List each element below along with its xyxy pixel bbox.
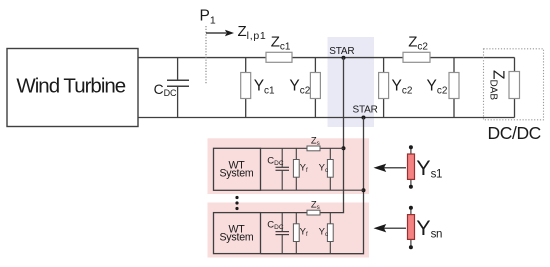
node bottom wire junction region1 xyxy=(362,188,366,192)
pink subsystem region 1 xyxy=(208,138,370,194)
STAR highlight band xyxy=(328,37,375,127)
svg-text:STAR: STAR xyxy=(329,46,354,57)
svg-text:Ysn: Ysn xyxy=(416,216,442,241)
WT System block 1 xyxy=(214,148,261,190)
admittance Yc2 (second pi right) xyxy=(449,58,459,118)
svg-text:Yc1: Yc1 xyxy=(254,78,275,97)
svg-text:Zc1: Zc1 xyxy=(271,33,291,52)
svg-text:Yc2: Yc2 xyxy=(392,78,413,97)
svg-text:System: System xyxy=(219,232,253,244)
wire STAR line 2 xyxy=(261,118,364,254)
node STAR bottom junction xyxy=(362,116,366,120)
svg-text:Zc2: Zc2 xyxy=(408,33,428,52)
admittance Yc2 (second pi left) xyxy=(379,58,389,118)
pink subsystem region 2 xyxy=(208,203,370,258)
svg-text:Zs: Zs xyxy=(311,200,320,212)
svg-text:Zl,p1: Zl,p1 xyxy=(238,23,267,42)
svg-text:Yc2: Yc2 xyxy=(289,78,310,97)
admittance Yc2 (first pi) xyxy=(310,58,320,118)
svg-text:ZDAB: ZDAB xyxy=(487,70,506,100)
admittance Ys1 xyxy=(408,145,415,189)
svg-text:Wind Turbine: Wind Turbine xyxy=(16,74,125,97)
svg-text:STAR: STAR xyxy=(353,105,378,116)
DC/DC converter dashed box xyxy=(484,49,544,120)
wire top rail xyxy=(138,57,515,59)
svg-text:DC/DC: DC/DC xyxy=(488,123,541,143)
WT System block 2 xyxy=(214,213,261,254)
wire region1 top xyxy=(261,147,344,149)
admittance Ysn xyxy=(408,206,415,250)
ellipsis dots between subsystems xyxy=(235,196,238,210)
impedance Zs region2 xyxy=(307,210,320,215)
svg-text:Yc2: Yc2 xyxy=(427,78,448,97)
wire STAR line 1 xyxy=(320,58,344,213)
admittance Yc region2 xyxy=(327,213,333,254)
impedance Zc2 xyxy=(403,52,430,62)
wire bottom rail xyxy=(138,117,515,119)
admittance Yf region1 xyxy=(293,148,299,190)
capacitor CDC region1 xyxy=(276,148,290,190)
impedance ZDAB xyxy=(509,58,520,118)
svg-text:Ys1: Ys1 xyxy=(416,156,442,181)
arrow Zl,p1 xyxy=(206,30,234,36)
arrow to region2 xyxy=(374,224,407,232)
capacitor CDC region2 xyxy=(276,213,290,254)
wire region2 top xyxy=(261,212,307,214)
svg-text:P1: P1 xyxy=(200,7,216,26)
node Zs junction region1 xyxy=(342,146,346,150)
Wind Turbine block xyxy=(7,49,138,127)
admittance Yc region1 xyxy=(327,148,333,190)
capacitor CDC xyxy=(167,58,189,118)
impedance Zc1 xyxy=(266,52,292,62)
node STAR top junction xyxy=(342,56,346,60)
admittance Yc1 xyxy=(241,58,251,118)
svg-text:CDC: CDC xyxy=(154,82,177,98)
node P1 dashed measurement line xyxy=(205,26,207,84)
wire region1 bottom xyxy=(261,189,364,191)
svg-text:Zs: Zs xyxy=(311,135,320,147)
svg-text:System: System xyxy=(219,167,253,179)
admittance Yf region2 xyxy=(293,213,299,254)
arrow to region1 xyxy=(374,164,407,172)
impedance Zs region1 xyxy=(307,146,320,151)
